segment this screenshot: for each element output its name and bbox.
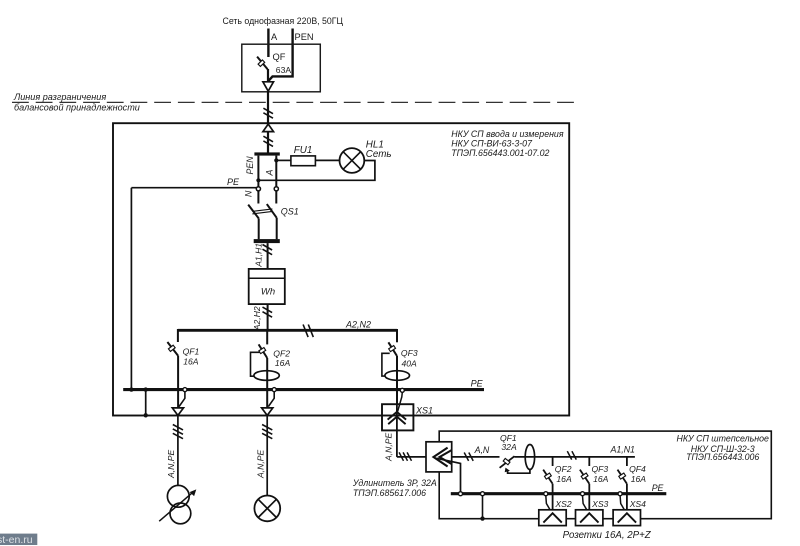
- lamp HL1 circle: [340, 148, 365, 173]
- svg-text:балансовой принадлежности: балансовой принадлежности: [14, 103, 140, 113]
- node PE riser joins bus: [129, 387, 133, 391]
- meter Wh terminal line: [249, 277, 285, 279]
- breaker QF1(box2) arrow on blade: [505, 468, 510, 473]
- terminal circle extension PE joins bus: [459, 492, 463, 496]
- svg-text:QF3: QF3: [401, 348, 418, 358]
- svg-text:XS4: XS4: [629, 499, 646, 509]
- svg-text:XS1: XS1: [415, 405, 433, 415]
- svg-text:QF1: QF1: [183, 347, 200, 357]
- cable mark /// line1: [173, 425, 183, 430]
- svg-text:16A: 16A: [593, 474, 609, 484]
- wire PE tap into XS3: [583, 496, 589, 513]
- breaker QF3 stub from bus: [396, 329, 398, 342]
- terminal circle PE tap XS4: [618, 492, 622, 496]
- wire PE to enclosure: [145, 390, 147, 416]
- cable mark // A1,H1: [263, 245, 273, 251]
- svg-text:Розетки 16А, 2P+Z: Розетки 16А, 2P+Z: [563, 530, 652, 541]
- svg-text:A: A: [271, 32, 278, 42]
- wire N to QS1: [257, 191, 259, 204]
- cable mark // A,N: [464, 453, 468, 461]
- breaker QF1 blade: [167, 342, 178, 356]
- input terminal bar: [254, 152, 279, 155]
- svg-text:XS2: XS2: [554, 499, 571, 509]
- socket XS3 chevron: [580, 513, 598, 522]
- terminal circle PE enclosure tap: [481, 492, 485, 496]
- svg-text:A2,N2: A2,N2: [345, 319, 371, 329]
- wire meter to bus A2,N2: [267, 304, 269, 330]
- switch QS1 pole left lower: [258, 218, 260, 239]
- socket XS4 chevron: [618, 513, 636, 522]
- load: variable autotransformer circle1: [167, 485, 189, 507]
- cable mark // on bus A2,N2: [303, 325, 308, 338]
- socket XS1 box: [382, 404, 413, 430]
- wire PE tap into XS2: [546, 496, 552, 513]
- extension connector box: [426, 442, 452, 472]
- switch QS1 blade right: [267, 204, 277, 218]
- cabinet box2: НКУ СП штепсельное: [439, 431, 771, 519]
- svg-text:НКУ СП штепсельное: НКУ СП штепсельное: [677, 434, 769, 444]
- connector triangle line1 (apex down): [172, 408, 183, 416]
- breaker QF2 release coil ellipse: [254, 371, 279, 381]
- breaker QF2 stub from bus: [266, 329, 268, 344]
- meter Wh box: [249, 269, 285, 304]
- node: lamp return joins PEN: [256, 178, 260, 182]
- breaker QF2(box2) stub: [552, 457, 554, 466]
- wire PEN vertical: [257, 156, 259, 187]
- svg-text:Линия разграничения: Линия разграничения: [13, 92, 106, 102]
- svg-text:PE: PE: [227, 177, 240, 187]
- svg-text:Сеть однофазная 220В, 50ГЦ: Сеть однофазная 220В, 50ГЦ: [223, 16, 344, 26]
- svg-text:A1,N1: A1,N1: [610, 444, 636, 454]
- enclosure box: supply breaker QF: [242, 44, 320, 92]
- connector triangle at QF box output (apex down): [263, 82, 274, 91]
- breaker QF blade: [257, 57, 268, 70]
- socket XS1 chevron2: [388, 417, 405, 425]
- load: autotransformer arrow: [159, 492, 194, 522]
- socket XS4 box: [613, 510, 640, 526]
- terminal circle PE tap for XS1: [400, 388, 404, 392]
- breaker QF3 release coil ellipse: [385, 371, 410, 381]
- terminal circle PE tap XS2: [544, 492, 548, 496]
- breaker QF3(box2) tick: [581, 473, 588, 479]
- wire QF3 to socket: [588, 484, 590, 514]
- svg-text:A,N,PE: A,N,PE: [166, 450, 176, 479]
- breaker QF3(box2) stub: [588, 457, 590, 466]
- wire A to QS1: [275, 191, 277, 204]
- breaker QF2 blade: [259, 344, 268, 358]
- wire line2 cable: [266, 416, 268, 496]
- svg-text:PE: PE: [652, 483, 664, 493]
- fuse FU1: [291, 156, 316, 166]
- svg-text:ТПЭП.656443.001-07.02: ТПЭП.656443.001-07.02: [451, 148, 549, 158]
- wire through XS1 down: [396, 390, 398, 457]
- svg-text:16A: 16A: [631, 474, 647, 484]
- wire: phase A drop from network: [267, 29, 269, 58]
- cable mark // A1,N1 run: [567, 451, 571, 459]
- wire PE vertical down to PE bus: [130, 188, 132, 390]
- svg-text:A,N,PE: A,N,PE: [383, 433, 393, 462]
- breaker QF3 release link: [382, 353, 390, 376]
- svg-text:Сеть: Сеть: [366, 149, 392, 160]
- svg-text:НКУ СП ввода и измерения: НКУ СП ввода и измерения: [451, 129, 564, 139]
- svg-text:QF4: QF4: [629, 464, 646, 474]
- svg-text:ТПЭП.685617.006: ТПЭП.685617.006: [353, 488, 426, 498]
- switch QS1 pole right lower: [276, 218, 278, 239]
- terminal circle on A path: [274, 187, 278, 191]
- breaker QF2(box2) blade: [543, 470, 552, 484]
- breaker QF release tick: [258, 60, 265, 67]
- cable mark /// XS1 cable: [399, 452, 403, 460]
- svg-text:40A: 40A: [402, 359, 418, 369]
- wire A1,N1 run: [515, 456, 635, 458]
- connector triangle line2 (apex down): [262, 408, 273, 416]
- socket XS2 box: [539, 510, 566, 526]
- svg-text:ТПЭП.656443.006: ТПЭП.656443.006: [686, 452, 759, 462]
- wire: QF output: [267, 69, 269, 82]
- dashed demarcation line: [12, 101, 574, 103]
- wire QF4 to socket: [626, 484, 628, 514]
- breaker QF4(box2) tick: [619, 473, 626, 479]
- svg-text:QF: QF: [273, 52, 286, 62]
- load: lamp circle: [254, 496, 280, 522]
- wire extension PE drop: [437, 458, 461, 492]
- wire line1 cable: [177, 416, 179, 486]
- svg-text:A2,H2: A2,H2: [252, 306, 262, 331]
- wire PE tap into XS4: [620, 496, 626, 513]
- wire to extension connector: [397, 456, 500, 458]
- breaker QF2 release link: [251, 352, 260, 376]
- svg-text:QF2: QF2: [555, 464, 572, 474]
- cabinet box1: НКУ СП ввода и измерения: [113, 123, 569, 415]
- terminal circle PE tap for line1: [183, 388, 187, 392]
- svg-text:QS1: QS1: [281, 206, 299, 216]
- svg-text:16A: 16A: [183, 357, 199, 367]
- cable mark /// line2: [262, 425, 272, 430]
- node PE at enclosure edge: [144, 413, 148, 417]
- terminal circle PE tap for line2: [272, 388, 276, 392]
- svg-text:16A: 16A: [275, 358, 291, 368]
- breaker QF3(box2) blade: [580, 470, 589, 484]
- svg-text:Удлинитель 3Р, 32А: Удлинитель 3Р, 32А: [352, 478, 437, 488]
- socket XS1 chevron1: [388, 412, 407, 420]
- breaker QF3 tick: [389, 346, 396, 352]
- breaker QF1 stub from bus: [177, 329, 179, 342]
- svg-text:st-en.ru: st-en.ru: [0, 534, 33, 546]
- bus A2,N2: [178, 329, 397, 332]
- svg-text:N: N: [244, 190, 254, 197]
- breaker QF1 tick: [168, 345, 175, 351]
- cable mark // A2,H2: [263, 307, 273, 313]
- wire QF1 down: [177, 356, 179, 409]
- svg-text:63A: 63A: [276, 65, 292, 75]
- cable mark // below box1 input: [263, 136, 273, 142]
- svg-text:PEN: PEN: [295, 32, 314, 42]
- svg-text:PE: PE: [471, 378, 484, 388]
- svg-text:PEN: PEN: [245, 156, 255, 175]
- svg-text:НКУ СП-ВИ-63-3-07: НКУ СП-ВИ-63-3-07: [451, 138, 533, 148]
- wire PE tap into XS1: [398, 392, 403, 411]
- wire PE to box2 enclosure: [482, 496, 484, 519]
- wire QF2 down: [266, 358, 268, 409]
- svg-text:16A: 16A: [556, 474, 572, 484]
- extension chevron outer: [434, 448, 448, 467]
- wire: FU1 to HL1: [315, 159, 339, 161]
- switch QS1 tie bar: [252, 209, 272, 212]
- socket XS3 box: [576, 510, 603, 526]
- cable mark // (2 cores) above box1: [263, 108, 273, 114]
- node: tap to FU1 on A: [274, 158, 278, 162]
- svg-text:A,N,PE: A,N,PE: [255, 450, 265, 479]
- breaker QF1(box2) blade: [500, 456, 515, 468]
- terminal circle PE tap XS3: [581, 492, 585, 496]
- breaker QF2 tick: [259, 348, 266, 354]
- switch QS1 blade left: [248, 205, 259, 219]
- breaker QF1(box2) release link: [508, 470, 530, 473]
- wire QF2 to socket: [552, 484, 554, 514]
- breaker QF3 blade: [388, 342, 397, 356]
- load: lamp cross: [258, 499, 276, 517]
- extension chevron inner: [440, 450, 452, 464]
- switch QS1 output bar: [254, 239, 280, 243]
- svg-text:32A: 32A: [501, 442, 517, 452]
- load: variable autotransformer circle2: [170, 503, 191, 524]
- breaker QF1(box2) release coil ellipse: [525, 445, 534, 470]
- watermark st-en.ru: [0, 534, 37, 545]
- wire: PEN drop from network with elbow to breaker output: [268, 29, 292, 82]
- wire PE branch horizontal: [131, 187, 257, 189]
- wire PE tap to line1 connector: [179, 392, 185, 407]
- svg-text:QF2: QF2: [273, 348, 290, 358]
- svg-text:FU1: FU1: [294, 145, 313, 156]
- terminal circle on N path: [256, 187, 260, 191]
- breaker QF4(box2) blade: [618, 470, 627, 484]
- node PE at box2 edge: [480, 516, 484, 520]
- svg-text:QF3: QF3: [592, 464, 609, 474]
- svg-text:A1,H1: A1,H1: [253, 243, 263, 268]
- wire A vertical: [275, 156, 277, 187]
- connector triangle at box1 input (apex up): [263, 124, 274, 132]
- svg-text:XS3: XS3: [591, 499, 608, 509]
- wire: lamp return to PEN: [258, 161, 375, 181]
- lamp HL1 cross: [343, 152, 361, 170]
- wire QF3 down: [396, 356, 398, 404]
- node enclosure earth tap: [144, 387, 148, 391]
- wire QS1 to meter: [267, 243, 269, 269]
- wire PE tap to line2 connector: [268, 392, 274, 407]
- bus PE (box2): [451, 492, 667, 495]
- wire: branch to FU1: [276, 159, 291, 161]
- svg-text:A: A: [265, 170, 275, 177]
- breaker QF2(box2) tick: [544, 473, 551, 479]
- svg-text:Wh: Wh: [261, 286, 275, 297]
- breaker QF4(box2) stub: [626, 457, 628, 466]
- breaker QF1(box2) tick: [503, 458, 510, 464]
- socket XS2 chevron: [543, 513, 561, 522]
- wire: drop to input cabinet: [267, 91, 269, 153]
- svg-text:A,N: A,N: [474, 445, 490, 455]
- bus PE (box1): [123, 388, 484, 391]
